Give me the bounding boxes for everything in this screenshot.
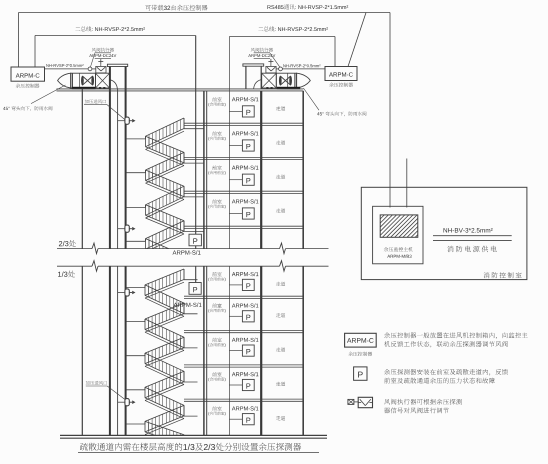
label left control cable bbox=[46, 64, 83, 67]
fan right outlet cone bbox=[297, 73, 311, 88]
shaft cap left bbox=[107, 64, 127, 66]
room label corridor L2 bbox=[276, 313, 285, 317]
building right wall bbox=[302, 91, 304, 436]
room label anteroom U1 bbox=[208, 97, 225, 106]
wire detector L5 bbox=[229, 418, 242, 420]
label fire power supply bbox=[447, 246, 496, 252]
controller ARPM-C left bbox=[11, 67, 45, 81]
caption bottom bbox=[78, 443, 319, 453]
detector label U3 bbox=[232, 165, 259, 169]
room label corridor U1 bbox=[276, 106, 285, 110]
detector label L4 bbox=[232, 372, 259, 376]
room label anteroom L1 bbox=[208, 272, 225, 281]
floor slab U4 bbox=[184, 226, 303, 228]
wire detector L2 bbox=[229, 315, 242, 317]
detector label U4 bbox=[232, 199, 259, 203]
legend controller name bbox=[348, 352, 372, 356]
actuator plus symbol right bbox=[268, 59, 273, 67]
floor slab U3 bbox=[184, 191, 303, 193]
wire detector U2 bbox=[229, 145, 242, 147]
monitor host hatched panel bbox=[380, 215, 418, 237]
controller ARPM-C right bbox=[325, 67, 357, 81]
staircase lower section bbox=[126, 269, 198, 448]
label fire power cable bbox=[433, 228, 512, 241]
shaft right-tower left wall bbox=[245, 66, 247, 89]
label two-bus right bbox=[258, 26, 328, 31]
legend controller ARPM-C symbol bbox=[345, 333, 377, 347]
legend controller description bbox=[384, 332, 527, 347]
room label corridor L4 bbox=[276, 382, 285, 386]
room label corridor U3 bbox=[276, 175, 285, 179]
room label anteroom L5 bbox=[208, 406, 225, 415]
room label anteroom U4 bbox=[208, 199, 225, 208]
room label corridor L3 bbox=[276, 347, 285, 351]
label monitor host bbox=[384, 247, 413, 258]
shaft inner duct line bbox=[117, 89, 119, 436]
label 45-degree elbow right bbox=[303, 88, 366, 116]
room label corridor L5 bbox=[276, 416, 285, 420]
ground line bbox=[60, 435, 327, 438]
shaft cap right bbox=[243, 64, 264, 66]
duct elbow left into shaft bbox=[99, 80, 117, 89]
wire detector L3 bbox=[229, 350, 242, 352]
floor slab L2 bbox=[184, 331, 303, 333]
supply air outlet 4 bbox=[118, 399, 136, 406]
label stair detector upper bbox=[173, 250, 201, 254]
shaft left wall bbox=[109, 67, 111, 436]
fan right mounting base bbox=[277, 87, 300, 90]
detector label L1 bbox=[232, 272, 259, 276]
supply air outlet 2 bbox=[118, 225, 136, 232]
pressure detector P L1 bbox=[242, 279, 254, 290]
label right control cable bbox=[283, 64, 320, 67]
wire detector U3 bbox=[229, 179, 242, 181]
pressure detector P stair upper bbox=[189, 234, 201, 246]
building break line upper (2/3 level) bbox=[57, 243, 329, 254]
room label corridor L1 bbox=[276, 282, 285, 286]
legend detector description bbox=[384, 369, 508, 383]
building break line lower (1/3 level) bbox=[57, 261, 329, 272]
supply air outlet 1 bbox=[118, 117, 136, 124]
legend actuator description bbox=[384, 399, 462, 414]
room label corridor U4 bbox=[276, 208, 285, 212]
floor slab L3 bbox=[184, 365, 303, 367]
wire left controller to damper actuator bbox=[45, 67, 96, 71]
pressure detector P U3 bbox=[242, 174, 254, 185]
staircase upper section bbox=[126, 118, 205, 269]
floor slab L4 bbox=[184, 399, 303, 401]
label stair detector lower bbox=[174, 303, 202, 307]
damper actuator left bbox=[96, 66, 106, 73]
wire detector U1 bbox=[229, 110, 242, 112]
building left wall bbox=[81, 89, 83, 436]
actuator plus symbol left bbox=[98, 59, 103, 66]
label two-bus left bbox=[75, 26, 145, 31]
anteroom-corridor wall bbox=[260, 91, 262, 436]
pressure detector P U4 bbox=[242, 208, 254, 219]
pressure detector P L5 bbox=[242, 414, 254, 425]
fan left body bbox=[71, 73, 96, 88]
label bus capacity bbox=[145, 5, 207, 11]
fan right body bbox=[276, 73, 296, 88]
room label anteroom L2 bbox=[208, 303, 225, 312]
room label corridor U2 bbox=[276, 140, 285, 144]
detector label U1 bbox=[232, 97, 259, 101]
room label anteroom U2 bbox=[208, 131, 225, 140]
label supply outlet upper bbox=[84, 99, 125, 119]
label fire control room bbox=[484, 272, 522, 278]
legend detector P symbol bbox=[354, 367, 367, 380]
label left controller name bbox=[16, 84, 40, 88]
floor slab U2 bbox=[184, 157, 303, 159]
detector label U2 bbox=[232, 131, 259, 135]
pressure detector P stair lower bbox=[189, 283, 201, 295]
wire detector U4 bbox=[229, 213, 242, 215]
floor slab U1 bbox=[184, 123, 303, 125]
pressure detector P U2 bbox=[242, 140, 254, 151]
legend damper actuator symbol bbox=[348, 397, 373, 407]
wire diagonal RS485 to right ARPM-C bbox=[348, 13, 366, 67]
fan left mounting base bbox=[72, 87, 96, 90]
room label anteroom L3 bbox=[208, 338, 225, 347]
wire two-bus right segment bbox=[229, 37, 335, 67]
fan left impeller bbox=[81, 76, 94, 86]
room label anteroom U3 bbox=[208, 165, 225, 174]
wire RS485 bus (top) bbox=[19, 13, 391, 208]
label RS485 cable spec bbox=[267, 4, 348, 9]
wire stub to monitor host bbox=[406, 159, 408, 208]
detector label L2 bbox=[232, 303, 259, 307]
pressure detector P L4 bbox=[242, 379, 254, 390]
wire detector L1 bbox=[229, 284, 242, 286]
damper actuator right bbox=[266, 66, 276, 73]
supply air outlet 3 bbox=[118, 289, 136, 296]
pressure detector P U1 bbox=[242, 106, 254, 117]
stair-anteroom wall bbox=[196, 36, 207, 436]
detector label L5 bbox=[232, 406, 259, 410]
label damper actuator left bbox=[89, 48, 116, 67]
shaft right-tower right wall bbox=[260, 66, 262, 89]
duct elbow right into shaft bbox=[254, 80, 273, 89]
label 2/3 height bbox=[59, 240, 76, 247]
label supply outlet lower bbox=[86, 381, 125, 400]
label 45-degree elbow left bbox=[3, 85, 65, 111]
pressure detector P L3 bbox=[242, 345, 254, 356]
pressure detector P L2 bbox=[242, 311, 254, 322]
monitor host cabinet bbox=[373, 206, 423, 263]
damper right bbox=[262, 73, 277, 88]
room label anteroom L4 bbox=[208, 372, 225, 381]
wire two-bus left segment bbox=[35, 36, 196, 68]
shaft right wall bbox=[125, 67, 127, 436]
detector label L3 bbox=[232, 338, 259, 342]
roofline bbox=[57, 89, 304, 91]
damper left bbox=[96, 73, 110, 88]
anteroom riser wall bbox=[228, 37, 230, 436]
fan left inlet cone bbox=[58, 73, 71, 88]
fan right impeller bbox=[279, 76, 292, 86]
floor slab L1 bbox=[184, 296, 303, 298]
wire detector L4 bbox=[229, 384, 242, 386]
wire right controller to actuator bbox=[276, 67, 325, 71]
label right controller name bbox=[329, 83, 353, 87]
fire control room outline bbox=[361, 187, 527, 279]
label 1/3 height bbox=[58, 271, 75, 278]
label damper actuator right bbox=[248, 48, 280, 68]
